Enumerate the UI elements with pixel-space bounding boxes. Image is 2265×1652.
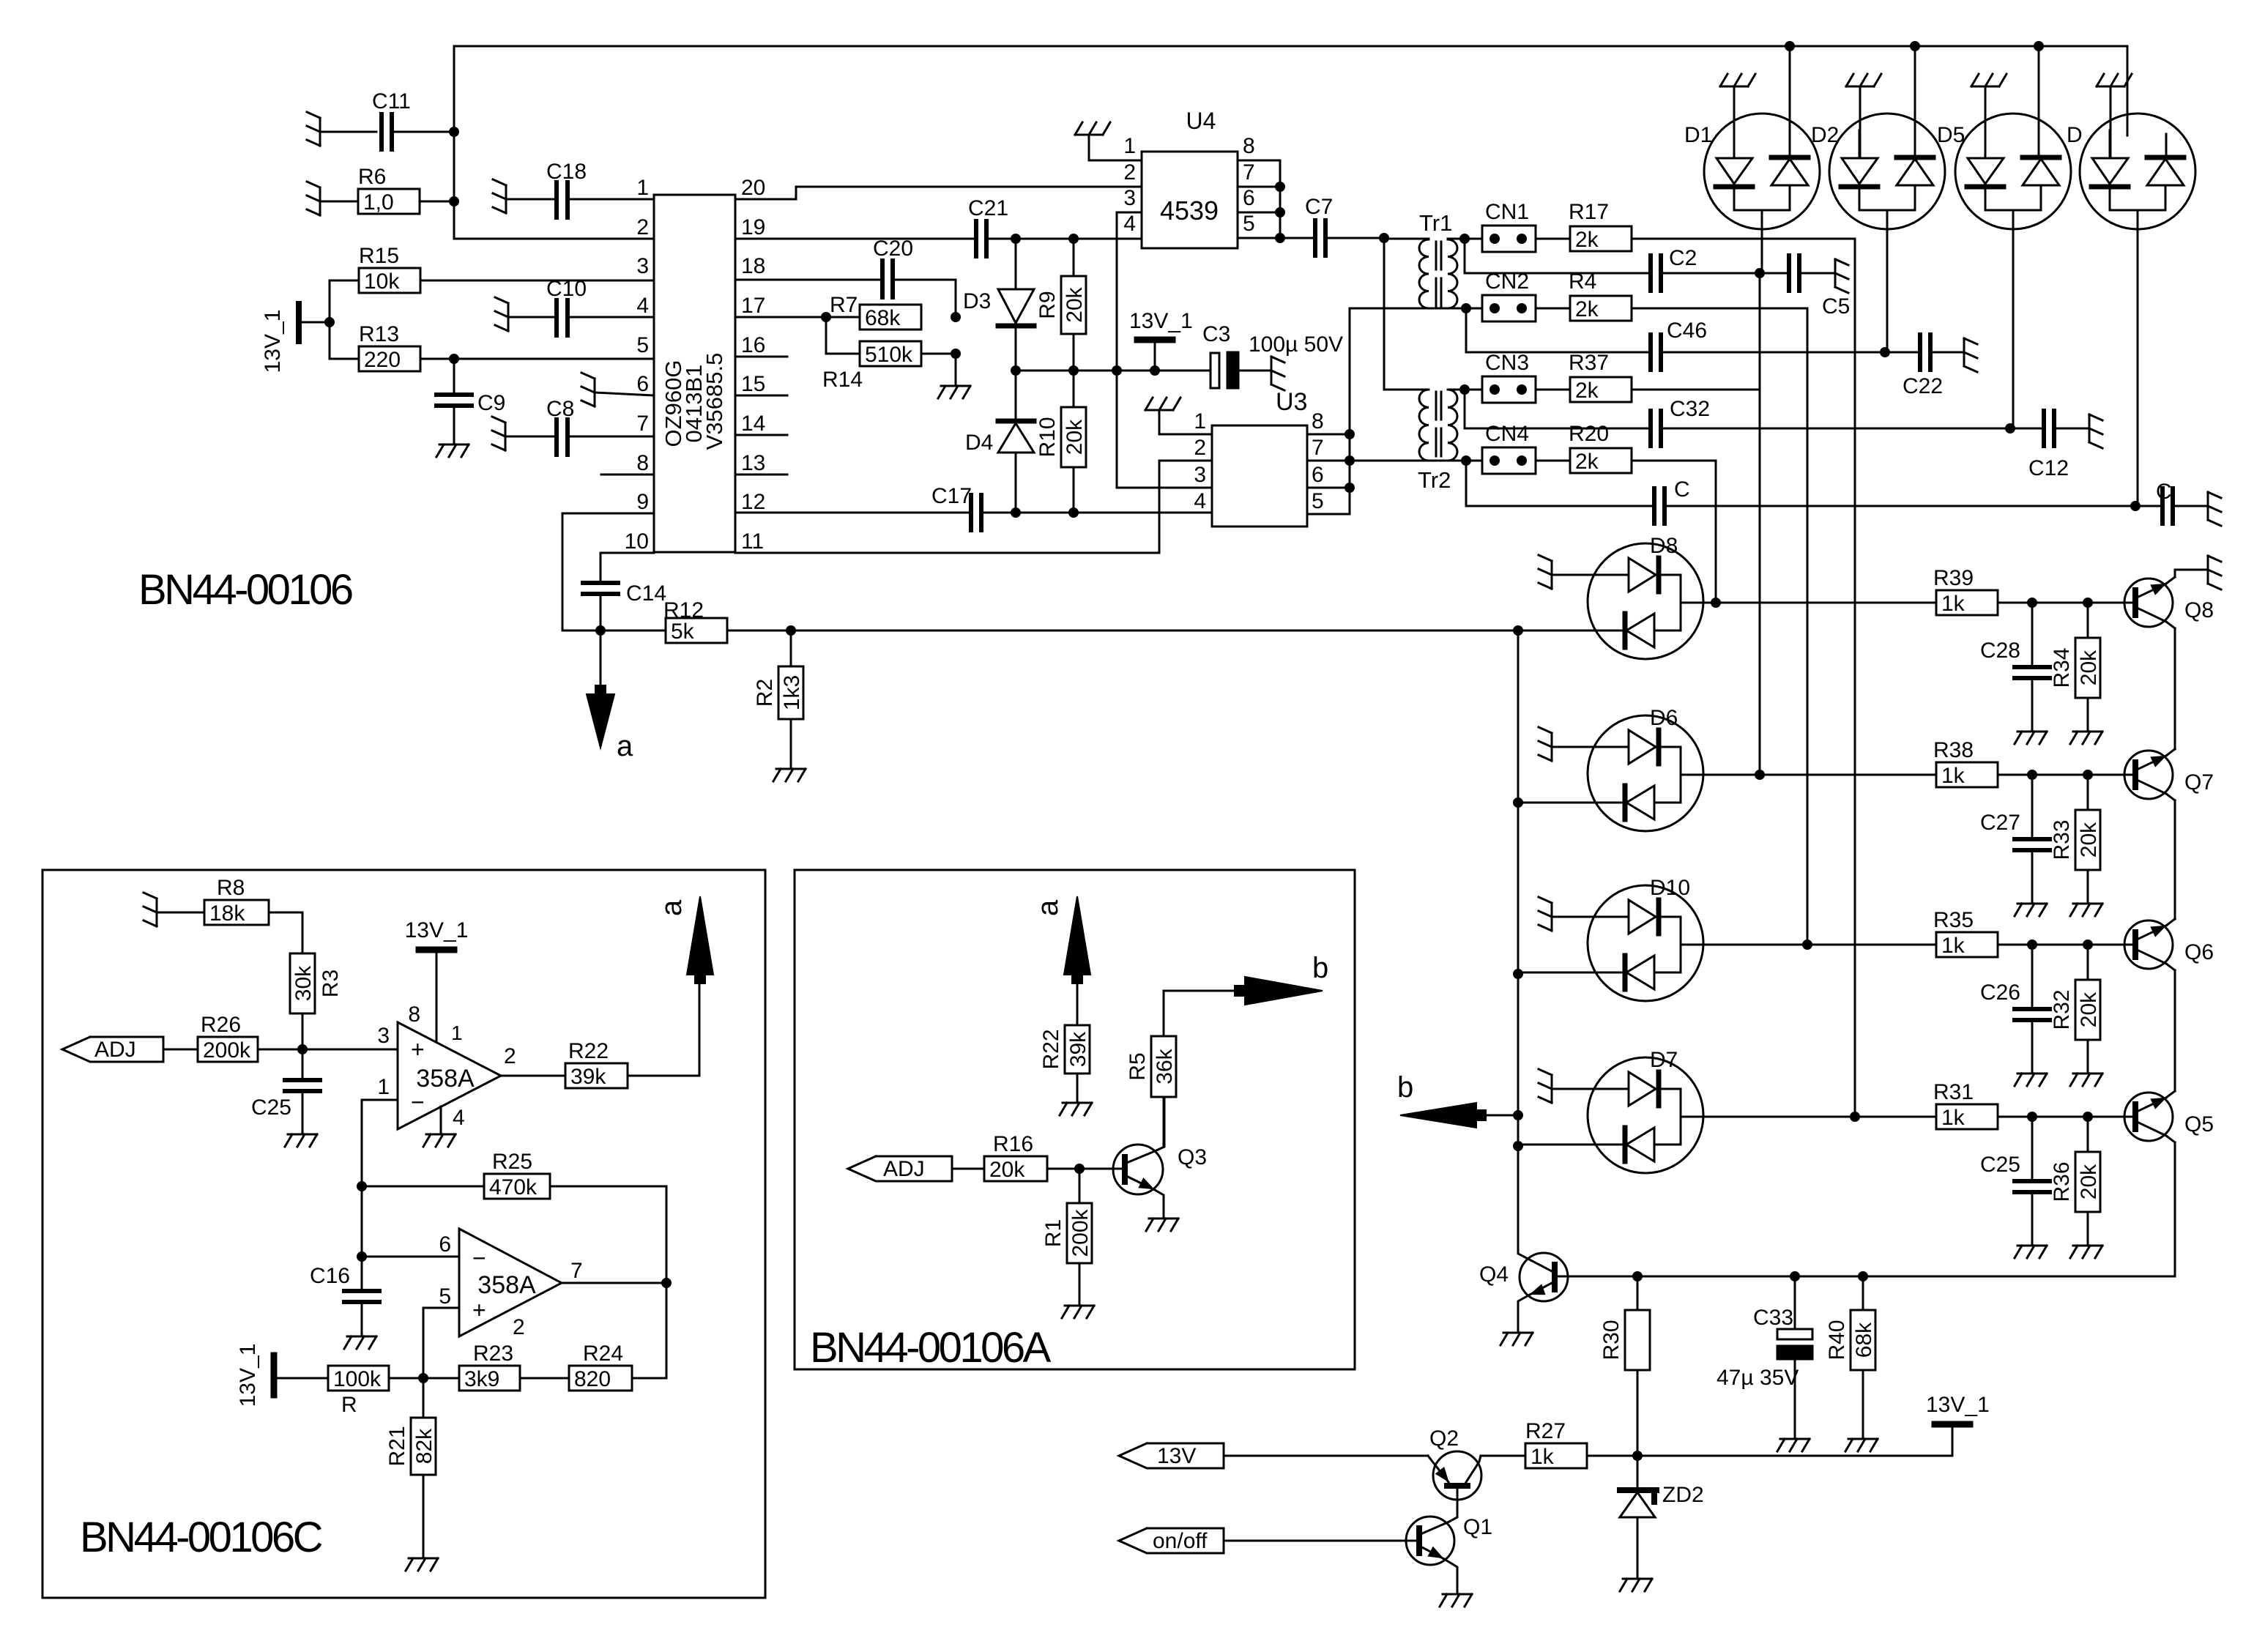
svg-text:39k: 39k [570,1065,606,1089]
svg-text:5: 5 [636,333,649,357]
ground (U4 pin 1) [1075,122,1142,160]
svg-text:5: 5 [1312,489,1324,513]
IC OZ960G 0413B1 V35685.5 [625,176,766,554]
svg-text:1: 1 [1194,409,1206,434]
resistor R22 (box A) [1039,1025,1092,1115]
svg-text:R24: R24 [583,1342,623,1366]
svg-text:1: 1 [451,1022,463,1044]
capacitor C5 [1760,256,1850,319]
capacitor C26 [1980,945,2050,1086]
svg-text:2k: 2k [1575,450,1599,474]
resistor R8 [144,876,302,926]
svg-text:R34: R34 [2050,647,2074,688]
svg-text:R15: R15 [359,244,399,268]
wire: lamp bus (left) [1513,625,1523,1253]
svg-text:+: + [411,1036,425,1063]
resistor R6 [307,165,459,215]
wire: IC pin 10 to C14 [600,553,654,583]
svg-text:ADJ: ADJ [94,1038,136,1062]
svg-text:BN44-00106A: BN44-00106A [810,1324,1052,1372]
wire: op-amp2 -input [362,1256,459,1258]
wire: Tr2 bottom line [1350,455,1471,466]
capacitor C8 [492,397,654,455]
capacitor C46 [1466,308,1890,370]
svg-text:−: − [472,1245,486,1271]
svg-text:2: 2 [1194,436,1206,460]
svg-text:16: 16 [741,333,765,357]
svg-text:R7: R7 [830,293,858,317]
svg-text:C25: C25 [1980,1153,2020,1177]
svg-text:R: R [341,1393,357,1417]
svg-text:3: 3 [1123,186,1136,210]
svg-text:R25: R25 [492,1150,532,1174]
svg-text:D: D [2067,123,2083,147]
svg-text:C9: C9 [477,391,505,415]
svg-text:200k: 200k [1068,1208,1093,1257]
wire: IC pin 17 node [735,312,961,322]
svg-text:1k: 1k [1941,1106,1965,1130]
svg-text:10: 10 [625,529,649,554]
svg-text:7: 7 [636,412,649,436]
svg-text:R13: R13 [359,322,399,346]
svg-text:1: 1 [636,176,649,200]
svg-text:100µ 50V: 100µ 50V [1249,332,1343,357]
svg-text:1,0: 1,0 [363,190,394,215]
svg-text:U4: U4 [1186,108,1216,134]
svg-text:BN44-00106: BN44-00106 [138,566,352,614]
svg-text:b: b [1312,952,1328,984]
power 13V_1 (center) [1129,309,1193,371]
svg-text:R20: R20 [1569,422,1609,446]
svg-text:11: 11 [741,529,764,554]
svg-text:2k: 2k [1575,297,1599,321]
svg-text:68k: 68k [865,306,901,330]
wire: IC pin 18 to C20 [735,279,882,281]
svg-text:2: 2 [636,215,649,239]
svg-text:13V: 13V [1157,1444,1196,1468]
svg-text:V35685.5: V35685.5 [702,353,727,450]
svg-text:R27: R27 [1525,1419,1566,1443]
box BN44-00106A [795,870,1355,1372]
svg-text:R30: R30 [1599,1320,1624,1360]
svg-text:R38: R38 [1933,738,1974,762]
wire: IC pin 14 stub [735,434,787,436]
svg-text:3: 3 [377,1024,390,1048]
resistor R39 [1716,566,2135,616]
svg-text:C22: C22 [1903,374,1943,398]
capacitor C16 [310,1257,379,1349]
svg-text:R14: R14 [822,368,863,392]
wire: Q chain rail [1557,628,2175,1281]
svg-text:D2: D2 [1811,123,1839,147]
svg-text:R2: R2 [753,679,777,707]
svg-text:20: 20 [741,176,765,200]
svg-text:47µ 35V: 47µ 35V [1717,1366,1799,1390]
capacitor C17 [931,484,981,530]
capacitor C25 (box C) [251,1049,320,1147]
svg-text:C21: C21 [968,196,1008,220]
svg-text:68k: 68k [1852,1322,1876,1358]
lamp D [2067,74,2195,506]
svg-text:6: 6 [439,1232,451,1257]
wire: IC pin 13 stub [735,474,787,476]
capacitor C33 47u 35V [1717,1276,1812,1451]
capacitor C18 [493,160,654,217]
transistor Q3 [1113,1097,1207,1231]
svg-text:6: 6 [1243,186,1255,210]
wire: IC pin 19 to U4 pin 4 (node with C21) [735,234,1142,244]
resistor R20 wire to v1 [1632,460,1716,462]
wire: op-amp2 output node [562,1278,672,1288]
svg-text:510k: 510k [865,343,913,367]
transistor Q1 [1406,1515,1492,1607]
resistor R9 [1035,239,1087,371]
arrow b (from BN44-00106A) [1397,1071,1518,1128]
svg-text:4: 4 [636,294,649,318]
wire: U4 pins 8/7/6/5 bus [1238,160,1285,243]
svg-text:ZD2: ZD2 [1662,1483,1704,1507]
transistor Q4 [1479,1146,1568,1345]
resistor R14 [822,317,961,392]
svg-text:C26: C26 [1980,981,2020,1005]
svg-text:1: 1 [377,1075,390,1099]
box BN44-00106C [42,870,765,1598]
ground (U3 pin 1) [1145,398,1212,434]
wire: op-amp1 +input [302,1049,398,1051]
svg-text:200k: 200k [203,1038,251,1063]
svg-text:36k: 36k [1153,1048,1177,1084]
svg-text:R32: R32 [2050,989,2074,1030]
svg-text:CN1: CN1 [1485,200,1529,224]
wire: v4 (R17 row to D7) [1850,239,1860,1122]
svg-text:a: a [1032,899,1064,916]
svg-text:C7: C7 [1305,195,1333,219]
svg-text:R26: R26 [201,1013,241,1037]
capacitor C (series, CN4 row) [1466,461,2141,524]
svg-text:20k: 20k [2077,991,2101,1027]
wire: IC pin 9 to R12 node [562,513,654,630]
wire: U4 pin 3 to U3 pin 3 [1117,212,1212,488]
transformer Tr2 [1418,390,1465,493]
resistor R 100k [328,1366,428,1417]
svg-text:13V_1: 13V_1 [1129,309,1193,333]
svg-text:D5: D5 [1937,123,1965,147]
svg-text:2: 2 [504,1044,516,1068]
resistor R17 wire to v4 [1632,238,1855,240]
svg-text:C20: C20 [873,237,913,261]
resistor R25 [362,1150,666,1283]
ground (Q8 emitter) [2175,556,2221,589]
svg-text:C25: C25 [251,1095,291,1120]
lamp D2 [1811,46,1945,352]
svg-text:C2: C2 [1669,246,1697,270]
svg-text:9: 9 [636,490,649,514]
resistor R15 [330,244,654,322]
capacitor C (shunt, right) [2135,480,2221,526]
svg-text:+: + [472,1297,486,1323]
resistor R13 [330,322,654,372]
capacitor C28 [1980,603,2050,744]
svg-text:R22: R22 [1039,1029,1063,1069]
svg-text:5: 5 [439,1284,451,1309]
wire: top rail [454,41,2127,135]
wire: IC pin 16 stub [735,356,787,358]
svg-text:18: 18 [741,254,765,278]
resistor R37 wire to v2 [1632,389,1760,391]
svg-text:4: 4 [1123,212,1136,236]
svg-text:20k: 20k [2077,650,2101,685]
svg-text:3: 3 [636,254,649,278]
resistor R3 [290,912,343,1049]
lamp D10 [1518,876,1807,1001]
capacitor C2 [1465,239,1765,291]
svg-text:C5: C5 [1822,294,1850,319]
svg-text:U3: U3 [1276,388,1307,416]
svg-text:R40: R40 [1825,1320,1849,1360]
resistor R40 [1825,1276,1878,1451]
svg-text:3: 3 [1194,463,1206,487]
svg-text:14: 14 [741,412,765,436]
wire: rail drop to IC pin 2 [454,46,654,239]
op-amp U2A 358A [377,1002,516,1130]
svg-text:13V_1: 13V_1 [236,1344,260,1407]
svg-text:820: 820 [574,1367,611,1391]
zener diode ZD2 [1620,1456,1704,1591]
svg-text:17: 17 [741,294,765,318]
ground (op-amp 1 pin 4) [423,1106,455,1147]
wire: IC pin 8 stub [601,474,654,476]
svg-text:R39: R39 [1933,566,1974,590]
op-amp U2B 358A [439,1229,582,1339]
svg-text:20k: 20k [989,1158,1025,1182]
svg-text:Q6: Q6 [2184,940,2214,964]
svg-text:R22: R22 [568,1039,609,1063]
resistor R22 (box C) [501,1039,699,1089]
svg-text:R21: R21 [385,1426,409,1466]
power 13V_1 (left) [261,304,335,373]
svg-text:15: 15 [741,372,765,396]
svg-text:R8: R8 [217,876,245,900]
svg-text:20k: 20k [1063,286,1087,322]
svg-text:1: 1 [1123,134,1136,158]
svg-text:13: 13 [741,451,765,475]
svg-text:8: 8 [636,451,649,475]
svg-text:8: 8 [1243,134,1255,158]
svg-text:C8: C8 [546,397,574,421]
resistor R38 [1760,738,2135,788]
svg-text:13V_1: 13V_1 [405,918,469,942]
connector CN3 [1465,351,1632,403]
svg-text:19: 19 [741,215,765,239]
svg-text:ADJ: ADJ [883,1157,925,1181]
svg-text:D4: D4 [965,431,993,455]
wire: v3 (R4 row to D10) [1802,308,1812,950]
svg-text:D10: D10 [1650,876,1690,900]
svg-text:C46: C46 [1667,319,1707,343]
svg-text:D8: D8 [1650,534,1678,558]
svg-text:C18: C18 [546,160,587,184]
capacitor C10 [495,277,654,335]
wire: R12 node to lamp bus [791,630,1518,632]
svg-text:1k: 1k [1941,764,1965,788]
svg-text:C27: C27 [1980,811,2020,835]
resistor R35 [1807,908,2135,958]
svg-text:−: − [411,1089,425,1115]
svg-text:CN3: CN3 [1485,351,1529,375]
svg-text:358A: 358A [477,1271,536,1299]
svg-text:C33: C33 [1753,1306,1793,1330]
svg-text:7: 7 [570,1259,583,1283]
capacitor C9 [436,359,505,457]
svg-text:C28: C28 [1980,639,2020,663]
svg-text:220: 220 [364,348,401,372]
wire: Tr1 bottom line [1350,303,1471,313]
diode D4 [965,371,1034,513]
resistor R27 [1481,1419,1637,1469]
svg-text:C11: C11 [372,89,411,114]
svg-text:4: 4 [1194,489,1206,513]
svg-text:Q5: Q5 [2184,1112,2214,1136]
lamp D7 [1518,1048,1855,1173]
wire: IC pin 12 / C17 node [735,507,1212,518]
svg-text:30k: 30k [291,965,316,1001]
arrow a (to BN44-00106C) [587,630,633,762]
node: Tr2 secondary top [1459,384,1470,395]
IC U4 (4539) [1123,108,1254,248]
capacitor C22 [1885,335,1977,398]
wire: IC pin 20 to U4 pin 2 [735,187,1142,199]
svg-text:on/off: on/off [1153,1529,1208,1553]
wire: U3 pins 8/7/6/5 bus [1307,308,1355,514]
svg-text:R1: R1 [1041,1219,1065,1247]
capacitor C32 [1465,390,2015,446]
arrow b (box A) [1235,952,1328,1005]
svg-text:Q3: Q3 [1178,1145,1207,1169]
svg-text:C10: C10 [546,277,587,301]
svg-text:D7: D7 [1650,1048,1678,1072]
capacitor C3 100u 50V [1202,322,1343,416]
lamp D5 [1937,46,2071,428]
svg-text:D6: D6 [1650,706,1678,730]
svg-text:82k: 82k [412,1428,436,1464]
svg-text:1k: 1k [1531,1445,1555,1469]
svg-text:7: 7 [1312,436,1324,460]
svg-text:1k: 1k [1941,934,1965,958]
svg-text:R37: R37 [1569,351,1609,375]
svg-text:C3: C3 [1202,322,1230,346]
wire: v1 (R20 row to D8) [1711,461,1721,608]
wire: IC pin 15 stub [735,395,787,397]
svg-text:R10: R10 [1035,417,1060,457]
svg-text:Q7: Q7 [2184,770,2214,795]
transistor Q6 [2088,919,2214,970]
svg-text:20k: 20k [2077,1164,2101,1199]
svg-text:b: b [1397,1071,1413,1104]
svg-text:C32: C32 [1670,397,1710,421]
svg-text:39k: 39k [1066,1031,1090,1067]
svg-text:470k: 470k [489,1175,538,1199]
resistor R4 wire to v3 [1632,308,1807,310]
svg-text:358A: 358A [416,1065,475,1093]
capacitor C25 [1980,1117,2050,1258]
svg-text:D3: D3 [963,289,991,313]
resistor R33 [2050,775,2102,916]
capacitor C27 [1980,775,2050,916]
lamp D8 [1518,534,1716,659]
capacitor C21 [968,196,1008,256]
svg-text:2: 2 [513,1315,525,1339]
svg-text:R23: R23 [473,1342,513,1366]
svg-text:13V_1: 13V_1 [261,310,285,373]
svg-text:20k: 20k [1063,419,1087,455]
lamp D6 [1518,706,1760,831]
connector CN4 [1466,422,1632,474]
svg-text:CN4: CN4 [1485,422,1529,446]
transistor Q2 [1428,1426,1481,1522]
svg-text:R6: R6 [358,165,386,189]
wire: C7 node to Tr2 primary [1384,238,1424,390]
svg-text:12: 12 [741,490,765,514]
resistor R16 [984,1132,1125,1182]
svg-text:a: a [655,899,688,916]
resistor R36 [2050,1117,2102,1258]
wire: op-amp2 +input [423,1308,459,1378]
power 13V_1 (op-amp 1) [405,918,469,1041]
capacitor C14 [583,581,666,630]
resistor R26 [198,1013,398,1063]
svg-text:2k: 2k [1575,379,1599,403]
svg-text:C: C [2156,480,2172,504]
svg-text:100k: 100k [333,1367,382,1391]
svg-text:R5: R5 [1126,1052,1150,1080]
wire: 13V_1 / C3 node [1011,365,1210,376]
svg-text:Tr2: Tr2 [1418,467,1451,493]
arrow a (box A) [1032,896,1090,1025]
svg-text:10k: 10k [364,269,400,294]
ground (IC pin 6) [581,373,654,406]
svg-text:R31: R31 [1933,1080,1974,1104]
svg-text:Q8: Q8 [2184,598,2214,622]
svg-text:1k3: 1k3 [780,675,804,710]
power 13V_1 (right) [1632,1393,1990,1461]
pointer ADJ (box C) [62,1037,198,1062]
svg-text:4539: 4539 [1160,196,1219,226]
transistor Q8 [2088,577,2214,628]
resistor R34 [2050,603,2102,744]
svg-text:Q2: Q2 [1429,1426,1459,1451]
node: Tr1 secondary top [1459,234,1470,244]
svg-text:C14: C14 [626,581,666,606]
svg-text:2k: 2k [1575,228,1599,252]
resistor R32 [2050,945,2102,1086]
transformer Tr1 [1384,210,1465,308]
svg-text:20k: 20k [2077,822,2101,857]
transistor Q5 [2088,1091,2214,1142]
pointer ADJ (box A) [848,1156,984,1181]
capacitor C7 [1280,195,1389,256]
resistor R5 [1126,991,1234,1147]
resistor R23 [423,1342,569,1391]
resistor R30 [1599,1276,1650,1456]
resistor R21 [385,1378,438,1571]
svg-text:5k: 5k [671,619,695,644]
svg-text:R3: R3 [319,970,343,997]
pointer on/off [1119,1528,1419,1553]
svg-text:R17: R17 [1569,200,1609,224]
capacitor C11 [307,89,459,149]
svg-text:a: a [617,730,633,762]
svg-text:6: 6 [636,372,649,396]
